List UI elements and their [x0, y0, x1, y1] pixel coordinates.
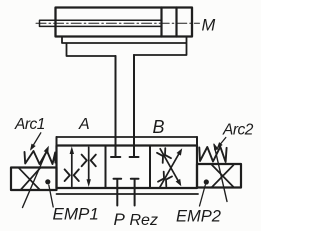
position 3 crossed arrow 1: [160, 151, 181, 187]
wire A (cylinder to valve port A): [115, 56, 117, 157]
leader line Arc2: [218, 138, 226, 148]
solenoid EMP1 dot: [45, 179, 50, 184]
position 3 crossed arrow 2: [160, 149, 180, 184]
svg-text:B: B: [153, 117, 165, 137]
position 1 throttle chevrons on up line: [65, 169, 79, 181]
svg-text:Arc2: Arc2: [222, 122, 254, 139]
spring Arc2: [199, 147, 226, 162]
leader line Arc1: [31, 133, 41, 149]
valve right edge extension: [196, 137, 198, 146]
svg-text:P: P: [114, 210, 126, 229]
adjust arrow through spring Arc2: [214, 145, 227, 202]
bottom rail line: [57, 193, 199, 195]
cylinder body: [56, 8, 193, 37]
leader line EMP2: [200, 185, 206, 206]
svg-text:Rez: Rez: [130, 212, 158, 229]
leader line EMP1: [49, 185, 53, 207]
port Rez blocked stub (centre position): [131, 179, 139, 206]
port P blocked stub (centre position): [114, 179, 122, 206]
port B blocked stub bar (centre position): [130, 156, 139, 158]
svg-text:EMP2: EMP2: [176, 208, 221, 226]
solenoid EMP2 box: [197, 164, 241, 188]
solenoid EMP1 cross: [19, 168, 40, 190]
wire B (cylinder to valve port B): [133, 55, 135, 157]
position 3 throttle cross lower: [158, 172, 172, 187]
valve block divider 2: [149, 146, 151, 189]
position 3 throttle cross upper: [157, 148, 171, 163]
piston rod: [40, 20, 162, 26]
valve left edge extension: [56, 137, 58, 146]
position 1 throttle chevrons on down line: [82, 155, 96, 167]
port A blocked stub bar (centre position): [111, 156, 120, 158]
adjust arrow through spring Arc1: [23, 151, 48, 208]
piston: [162, 8, 177, 37]
top rail line: [57, 136, 198, 138]
cylinder mounting manifold: [62, 37, 187, 57]
valve block divider 1: [105, 146, 107, 189]
svg-text:EMP1: EMP1: [53, 205, 99, 224]
axis centerline: [36, 22, 200, 24]
position 1 up-flow arrow: [71, 150, 73, 187]
spring Arc1: [25, 151, 57, 164]
solenoid EMP1 box: [11, 168, 57, 191]
solenoid EMP2 cross: [212, 165, 234, 187]
svg-text:Arc1: Arc1: [14, 116, 45, 133]
svg-text:A: A: [78, 116, 90, 133]
valve main block (3 positions): [57, 146, 198, 189]
svg-text:M: M: [202, 17, 216, 35]
solenoid EMP2 dot: [204, 179, 209, 184]
position 1 down-flow arrow: [88, 147, 90, 183]
